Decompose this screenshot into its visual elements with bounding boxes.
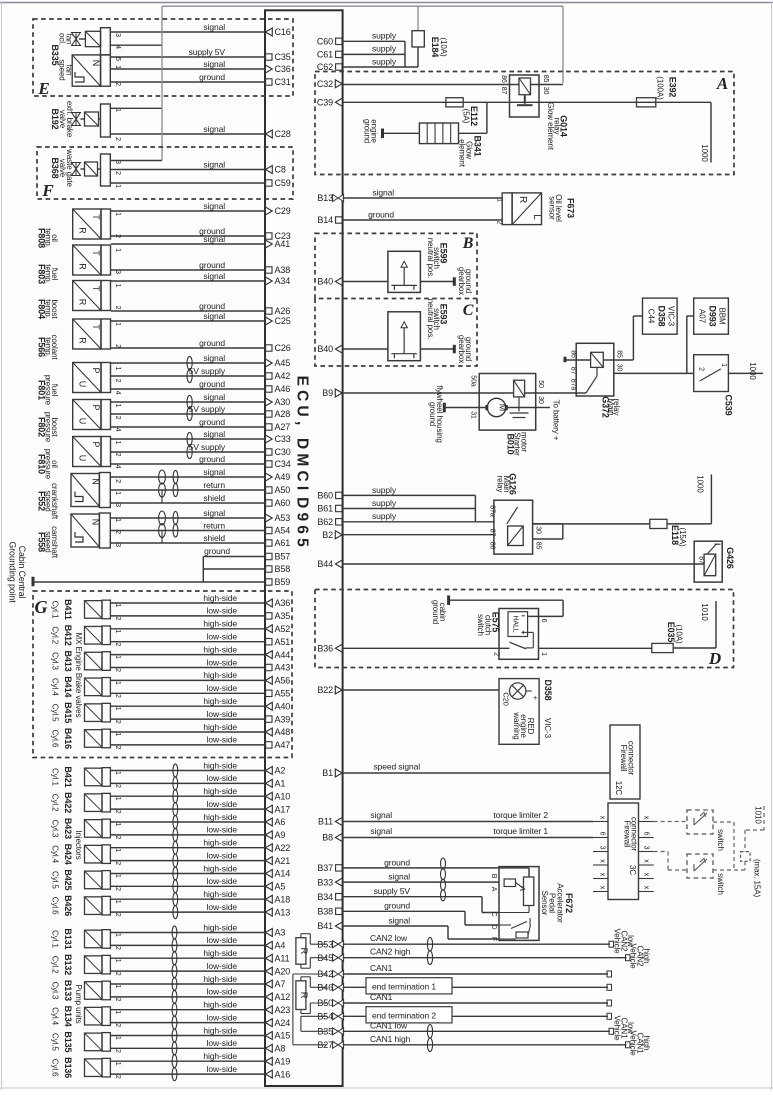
svg-text:A22: A22 (275, 843, 291, 853)
svg-text:low-side: low-side (207, 1038, 238, 1048)
svg-text:30: 30 (537, 396, 544, 404)
svg-text:G: G (35, 597, 48, 617)
svg-text:2: 2 (114, 913, 121, 917)
svg-text:signal: signal (388, 915, 410, 925)
svg-text:C26: C26 (275, 343, 291, 353)
svg-text:ground: ground (199, 379, 225, 389)
svg-text:high: high (642, 1036, 651, 1051)
svg-text:2: 2 (114, 379, 121, 383)
svg-text:supply: supply (372, 485, 397, 495)
svg-text:B38: B38 (317, 907, 333, 917)
svg-text:torque limiter 2: torque limiter 2 (493, 810, 548, 820)
svg-text:Cyl.4: Cyl.4 (51, 678, 60, 696)
svg-text:A60: A60 (275, 498, 291, 508)
svg-text:B425: B425 (63, 869, 73, 890)
svg-text:signal: signal (203, 429, 225, 439)
svg-text:1000: 1000 (700, 144, 709, 162)
svg-text:ground: ground (363, 119, 372, 143)
svg-text:low-side: low-side (207, 987, 238, 997)
svg-text:P: P (91, 368, 101, 374)
svg-text:A36: A36 (275, 598, 291, 608)
svg-text:low-side: low-side (207, 902, 238, 912)
svg-text:B416: B416 (63, 728, 73, 749)
svg-text:86: 86 (500, 75, 507, 83)
svg-text:2: 2 (114, 1049, 121, 1053)
svg-text:2: 2 (114, 479, 121, 483)
svg-text:B413: B413 (63, 650, 73, 671)
svg-text:2: 2 (114, 836, 121, 840)
svg-text:CAN1 low: CAN1 low (370, 1020, 408, 1030)
svg-text:CAN2 low: CAN2 low (370, 933, 408, 943)
svg-text:2: 2 (114, 998, 121, 1002)
svg-text:B423: B423 (63, 818, 73, 839)
svg-text:A30: A30 (275, 397, 291, 407)
svg-text:Cyl.4: Cyl.4 (51, 845, 60, 863)
svg-text:2: 2 (114, 617, 121, 621)
svg-text:A51: A51 (275, 637, 291, 647)
svg-text:3: 3 (643, 846, 650, 850)
svg-text:1: 1 (114, 322, 121, 326)
svg-text:A44: A44 (275, 650, 291, 660)
svg-text:relay: relay (612, 399, 621, 416)
svg-text:A18: A18 (275, 894, 291, 904)
svg-text:supply 5V: supply 5V (374, 886, 411, 896)
svg-text:50: 50 (537, 380, 544, 388)
svg-text:6: 6 (540, 619, 547, 623)
svg-text:2: 2 (496, 221, 503, 225)
svg-text:A43: A43 (275, 663, 291, 673)
svg-text:A48: A48 (275, 727, 291, 737)
svg-text:P: P (91, 442, 101, 448)
svg-text:30: 30 (542, 87, 549, 95)
svg-text:1: 1 (114, 733, 121, 737)
svg-text:C20: C20 (502, 692, 511, 705)
svg-text:B2: B2 (322, 530, 333, 540)
svg-text:2: 2 (114, 784, 121, 788)
svg-text:3C: 3C (628, 865, 637, 875)
svg-text:1010: 1010 (754, 806, 763, 824)
svg-text:A34: A34 (275, 276, 291, 286)
svg-text:1: 1 (114, 441, 121, 445)
svg-text:F804: F804 (37, 299, 47, 319)
svg-text:A12: A12 (275, 992, 291, 1002)
svg-text:supply: supply (372, 511, 397, 521)
svg-text:Pump units: Pump units (74, 984, 83, 1023)
svg-text:sensor: sensor (548, 196, 557, 220)
svg-text:torque limiter 1: torque limiter 1 (493, 826, 548, 836)
svg-text:high-side: high-side (203, 1000, 237, 1010)
svg-text:A21: A21 (275, 856, 291, 866)
svg-text:1: 1 (114, 367, 121, 371)
svg-text:high-side: high-side (203, 889, 237, 899)
svg-text:1: 1 (114, 65, 121, 69)
svg-text:VIC-3: VIC-3 (543, 718, 552, 739)
svg-text:low-side: low-side (207, 657, 238, 667)
svg-text:high-side: high-side (203, 922, 237, 932)
svg-text:2: 2 (114, 972, 121, 976)
svg-text:F808: F808 (37, 228, 47, 248)
svg-text:2: 2 (114, 946, 121, 950)
svg-text:high-side: high-side (203, 1051, 237, 1061)
svg-text:signal: signal (370, 826, 392, 836)
svg-text:B14: B14 (317, 215, 333, 225)
svg-text:T: T (91, 286, 101, 292)
svg-text:B412: B412 (63, 625, 73, 646)
svg-text:E184: E184 (430, 37, 440, 58)
svg-text:motor: motor (520, 432, 529, 452)
svg-text:1: 1 (114, 985, 121, 989)
svg-text:A11: A11 (275, 953, 290, 963)
svg-text:A5: A5 (275, 882, 286, 892)
svg-text:C44: C44 (647, 309, 656, 324)
svg-text:1000: 1000 (748, 362, 757, 380)
svg-text:1: 1 (114, 1062, 121, 1066)
svg-text:(15A): (15A) (678, 527, 687, 546)
svg-text:1: 1 (114, 491, 121, 495)
svg-text:A55: A55 (275, 689, 291, 699)
svg-text:R: R (298, 948, 309, 955)
svg-text:F: F (490, 937, 497, 941)
svg-text:Cyl.5: Cyl.5 (51, 704, 60, 722)
svg-text:B13: B13 (317, 193, 333, 203)
svg-text:1: 1 (114, 900, 121, 904)
svg-text:B: B (490, 874, 497, 879)
svg-text:B1: B1 (322, 768, 333, 778)
svg-text:C32: C32 (317, 79, 333, 89)
svg-text:1: 1 (114, 874, 121, 878)
svg-text:Cyl.6: Cyl.6 (51, 730, 60, 748)
svg-text:low-side: low-side (207, 606, 238, 616)
svg-text:2: 2 (114, 810, 121, 814)
svg-text:D: D (708, 649, 721, 668)
svg-text:50a: 50a (469, 375, 476, 387)
svg-text:86: 86 (488, 542, 495, 550)
svg-text:2: 2 (697, 367, 704, 371)
svg-text:ground: ground (428, 402, 437, 426)
svg-text:Cyl.2: Cyl.2 (51, 626, 60, 644)
svg-text:end termination 2: end termination 2 (372, 1011, 436, 1021)
svg-text:5V supply: 5V supply (189, 366, 226, 376)
svg-text:A6: A6 (275, 817, 286, 827)
svg-text:B57: B57 (275, 552, 291, 562)
svg-text:A56: A56 (275, 676, 291, 686)
svg-text:A49: A49 (275, 472, 291, 482)
svg-text:warning: warning (512, 711, 521, 739)
svg-text:A3: A3 (275, 928, 286, 938)
svg-text:1: 1 (114, 1010, 121, 1014)
svg-text:3: 3 (114, 33, 121, 37)
svg-text:31: 31 (469, 411, 476, 419)
svg-text:ground: ground (199, 260, 225, 270)
svg-text:A15: A15 (275, 1031, 291, 1041)
svg-text:5V supply: 5V supply (189, 404, 226, 414)
svg-text:C60: C60 (317, 37, 333, 47)
svg-text:Cyl.1: Cyl.1 (51, 768, 60, 786)
svg-text:1: 1 (114, 404, 121, 408)
svg-text:A53: A53 (275, 513, 291, 523)
svg-text:3: 3 (599, 846, 606, 850)
svg-text:85: 85 (615, 350, 622, 358)
svg-text:high-side: high-side (203, 722, 237, 732)
svg-text:Cyl.6: Cyl.6 (51, 897, 60, 915)
svg-text:F673: F673 (566, 198, 576, 218)
svg-text:CAN2 high: CAN2 high (370, 947, 411, 957)
svg-text:A35: A35 (275, 611, 291, 621)
svg-text:2: 2 (114, 642, 121, 646)
svg-text:F803: F803 (37, 264, 47, 284)
svg-text:signal: signal (203, 59, 225, 69)
svg-text:C539: C539 (724, 394, 734, 415)
svg-text:1: 1 (114, 797, 121, 801)
svg-text:2: 2 (114, 887, 121, 891)
svg-text:A41: A41 (275, 239, 291, 249)
svg-text:Cyl.6: Cyl.6 (51, 1059, 60, 1077)
svg-text:B368: B368 (50, 157, 60, 178)
svg-text:1: 1 (114, 629, 121, 633)
svg-text:F801: F801 (37, 380, 47, 400)
svg-text:(5A): (5A) (462, 109, 471, 124)
svg-text:A39: A39 (275, 714, 291, 724)
svg-text:signal: signal (203, 271, 225, 281)
svg-text:1: 1 (540, 652, 547, 656)
svg-text:signal: signal (370, 810, 392, 820)
svg-text:B33: B33 (317, 877, 333, 887)
svg-text:2: 2 (114, 171, 121, 175)
svg-text:Sensor: Sensor (540, 891, 549, 916)
svg-text:A40: A40 (275, 701, 291, 711)
svg-text:relay: relay (553, 118, 562, 135)
svg-text:B44: B44 (317, 559, 333, 569)
svg-text:ocl.: ocl. (58, 33, 67, 45)
svg-text:low-side: low-side (207, 935, 238, 945)
svg-text:low-side: low-side (207, 632, 238, 642)
svg-text:ground: ground (431, 600, 440, 624)
svg-text:87a: 87a (570, 379, 577, 391)
svg-text:MX Engine Brake valves: MX Engine Brake valves (74, 633, 83, 718)
svg-text:A28: A28 (275, 409, 291, 419)
svg-text:B134: B134 (63, 1006, 73, 1027)
svg-text:F810: F810 (37, 454, 47, 474)
svg-text:2: 2 (114, 453, 121, 457)
svg-text:shield: shield (203, 533, 225, 543)
svg-text:A24: A24 (275, 1018, 291, 1028)
svg-text:B62: B62 (317, 517, 333, 527)
svg-text:1: 1 (114, 248, 121, 252)
svg-text:B133: B133 (63, 980, 73, 1001)
svg-text:gearbox: gearbox (457, 267, 466, 295)
svg-text:(10A): (10A) (675, 624, 684, 643)
svg-text:low-side: low-side (207, 799, 238, 809)
svg-text:high-side: high-side (203, 1025, 237, 1035)
svg-text:F: F (41, 181, 54, 200)
svg-text:switch: switch (716, 829, 725, 851)
svg-text:low-side: low-side (207, 961, 238, 971)
svg-text:1: 1 (114, 959, 121, 963)
svg-text:2: 2 (114, 530, 121, 534)
svg-text:A26: A26 (275, 306, 291, 316)
svg-text:2: 2 (114, 861, 121, 865)
svg-text:C: C (463, 302, 474, 319)
svg-text:1: 1 (114, 1036, 121, 1040)
svg-text:signal: signal (203, 234, 225, 244)
svg-text:ECU, DMCI: ECU, DMCI (294, 376, 311, 495)
svg-text:(100A): (100A) (656, 76, 665, 100)
svg-text:87: 87 (570, 367, 577, 375)
svg-text:D: D (490, 925, 497, 930)
svg-text:CAN1: CAN1 (370, 992, 393, 1002)
svg-text:D965: D965 (294, 497, 311, 551)
svg-text:1: 1 (496, 198, 503, 202)
svg-text:P: P (91, 405, 101, 411)
svg-text:B8: B8 (322, 833, 333, 843)
svg-text:B415: B415 (63, 702, 73, 723)
svg-text:B36: B36 (317, 644, 333, 654)
svg-text:A: A (716, 74, 728, 93)
svg-text:connector: connector (627, 741, 636, 776)
svg-text:high-side: high-side (203, 593, 237, 603)
svg-text:2: 2 (114, 416, 121, 420)
svg-text:low-side: low-side (207, 876, 238, 886)
svg-text:Cyl.4: Cyl.4 (51, 1007, 60, 1025)
svg-text:B34: B34 (317, 892, 333, 902)
svg-text:A54: A54 (275, 526, 291, 536)
svg-text:A61: A61 (275, 538, 291, 548)
svg-text:Grounding point: Grounding point (8, 541, 18, 603)
svg-text:x: x (643, 816, 650, 820)
svg-text:return: return (203, 520, 225, 530)
svg-text:A9: A9 (275, 830, 286, 840)
svg-text:A52: A52 (275, 624, 291, 634)
svg-text:supply: supply (372, 31, 397, 41)
svg-text:1: 1 (114, 655, 121, 659)
svg-text:ground: ground (199, 417, 225, 427)
svg-text:B22: B22 (317, 685, 333, 695)
svg-text:1: 1 (114, 284, 121, 288)
svg-text:2: 2 (114, 306, 121, 310)
svg-text:B411: B411 (63, 599, 73, 620)
svg-text:C33: C33 (275, 434, 291, 444)
svg-text:supply: supply (372, 498, 397, 508)
svg-text:B11: B11 (318, 817, 333, 827)
svg-text:D993: D993 (708, 305, 718, 326)
svg-text:end termination 1: end termination 1 (372, 982, 436, 992)
svg-text:B60: B60 (317, 491, 333, 501)
svg-text:ground: ground (199, 72, 225, 82)
svg-text:T: T (91, 250, 101, 256)
svg-text:F558: F558 (37, 532, 47, 552)
svg-text:85: 85 (542, 75, 549, 83)
svg-text:C59: C59 (275, 178, 291, 188)
svg-text:T: T (91, 214, 101, 220)
svg-text:VIC-3: VIC-3 (667, 306, 676, 327)
svg-text:6: 6 (599, 832, 606, 836)
svg-text:low-side: low-side (207, 735, 238, 745)
svg-text:low-side: low-side (207, 683, 238, 693)
svg-text:2: 2 (114, 746, 121, 750)
svg-text:C31: C31 (275, 77, 291, 87)
svg-text:F552: F552 (37, 491, 47, 511)
svg-text:signal: signal (203, 201, 225, 211)
svg-text:x: x (643, 886, 650, 890)
svg-text:high-side: high-side (203, 974, 237, 984)
svg-text:high-side: high-side (203, 863, 237, 873)
svg-text:x: x (643, 859, 650, 863)
svg-text:A50: A50 (275, 485, 291, 495)
svg-text:Cyl.5: Cyl.5 (51, 871, 60, 889)
svg-text:Cyl.3: Cyl.3 (51, 652, 60, 670)
svg-text:Cyl.3: Cyl.3 (51, 982, 60, 1000)
svg-text:B422: B422 (63, 792, 73, 813)
svg-text:high-side: high-side (203, 786, 237, 796)
svg-text:30: 30 (615, 364, 622, 372)
svg-text:L: L (531, 214, 542, 220)
svg-text:element: element (458, 139, 467, 168)
svg-text:B414: B414 (63, 676, 73, 697)
svg-text:U: U (78, 418, 88, 424)
svg-text:86: 86 (570, 350, 577, 358)
svg-text:U: U (78, 381, 88, 387)
svg-text:high-side: high-side (203, 948, 237, 958)
svg-text:x: x (599, 859, 606, 863)
svg-text:R: R (298, 992, 309, 999)
svg-text:1: 1 (114, 933, 121, 937)
svg-text:4: 4 (114, 428, 121, 432)
svg-text:neutral pos.: neutral pos. (426, 238, 435, 279)
svg-text:C: C (490, 912, 497, 917)
svg-text:ground: ground (199, 301, 225, 311)
svg-text:C35: C35 (275, 52, 291, 62)
svg-text:B: B (462, 235, 474, 252)
svg-text:connector: connector (630, 817, 639, 852)
svg-text:2: 2 (114, 137, 121, 141)
svg-text:N: N (91, 60, 101, 66)
svg-text:supply: supply (372, 56, 397, 66)
svg-text:A: A (490, 887, 497, 892)
svg-text:1: 1 (114, 184, 121, 188)
svg-text:high-side: high-side (203, 619, 237, 629)
svg-text:Injectors: Injectors (74, 830, 83, 859)
svg-text:signal: signal (203, 22, 225, 32)
svg-text:x: x (599, 886, 606, 890)
svg-text:A23: A23 (275, 1005, 291, 1015)
svg-text:E392: E392 (668, 77, 678, 98)
svg-text:signal: signal (203, 467, 225, 477)
svg-text:speed signal: speed signal (373, 762, 420, 772)
svg-text:B192: B192 (50, 108, 60, 129)
svg-text:C25: C25 (275, 316, 291, 326)
svg-text:C29: C29 (275, 206, 291, 216)
svg-text:C39: C39 (317, 98, 333, 108)
svg-text:A19: A19 (275, 1056, 291, 1066)
svg-text:A14: A14 (275, 869, 291, 879)
svg-text:B61: B61 (317, 504, 333, 514)
svg-text:high-side: high-side (203, 696, 237, 706)
svg-text:A1: A1 (275, 779, 286, 789)
svg-text:low-side: low-side (207, 1012, 238, 1022)
svg-text:ground: ground (368, 210, 394, 220)
svg-text:1: 1 (114, 707, 121, 711)
svg-text:2: 2 (114, 344, 121, 348)
svg-text:C30: C30 (275, 447, 291, 457)
svg-text:supply 5V: supply 5V (189, 47, 226, 57)
svg-text:B58: B58 (275, 564, 291, 574)
svg-text:B421: B421 (63, 766, 73, 787)
svg-text:R: R (78, 227, 88, 234)
svg-text:ground: ground (384, 901, 410, 911)
svg-text:1: 1 (114, 681, 121, 685)
svg-text:R: R (517, 196, 528, 203)
svg-text:B335: B335 (50, 44, 60, 65)
